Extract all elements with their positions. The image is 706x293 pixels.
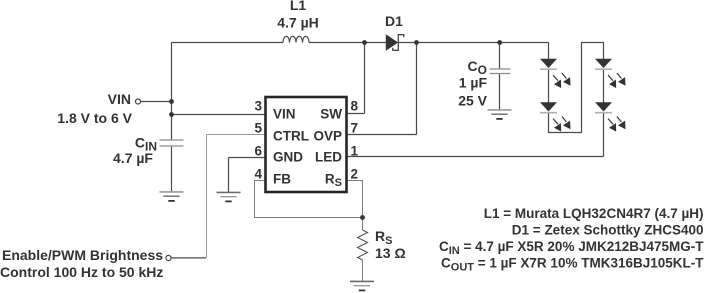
svg-text:SW: SW: [320, 107, 342, 122]
svg-text:5: 5: [254, 121, 262, 136]
svg-text:2: 2: [351, 167, 359, 182]
svg-text:4.7 µF: 4.7 µF: [113, 150, 153, 166]
svg-text:FB: FB: [273, 171, 291, 186]
svg-text:7: 7: [351, 121, 359, 136]
svg-text:6: 6: [254, 144, 262, 159]
svg-text:1: 1: [351, 144, 359, 159]
svg-text:D1: D1: [385, 13, 403, 29]
svg-text:3: 3: [254, 99, 262, 114]
svg-text:D1 = Zetex Schottky ZHCS400: D1 = Zetex Schottky ZHCS400: [512, 223, 704, 238]
svg-text:1.8 V to 6 V: 1.8 V to 6 V: [57, 110, 132, 126]
svg-text:L1: L1: [290, 0, 307, 13]
svg-text:OVP: OVP: [313, 128, 342, 143]
svg-text:8: 8: [351, 99, 359, 114]
svg-text:CTRL: CTRL: [273, 128, 309, 143]
svg-text:GND: GND: [273, 150, 303, 165]
svg-text:Control 100 Hz to 50 kHz: Control 100 Hz to 50 kHz: [0, 264, 163, 280]
svg-text:25 V: 25 V: [458, 93, 487, 109]
svg-text:VIN: VIN: [108, 91, 131, 107]
svg-text:LED: LED: [315, 150, 342, 165]
svg-text:13 Ω: 13 Ω: [375, 245, 406, 261]
svg-text:Enable/PWM Brightness: Enable/PWM Brightness: [2, 247, 163, 263]
svg-text:L1 = Murata LQH32CN4R7 (4.7 µH: L1 = Murata LQH32CN4R7 (4.7 µH): [484, 206, 704, 221]
svg-text:VIN: VIN: [273, 107, 296, 122]
svg-text:4.7 µH: 4.7 µH: [277, 14, 319, 30]
svg-text:4: 4: [254, 167, 262, 182]
svg-text:1 µF: 1 µF: [459, 75, 488, 91]
